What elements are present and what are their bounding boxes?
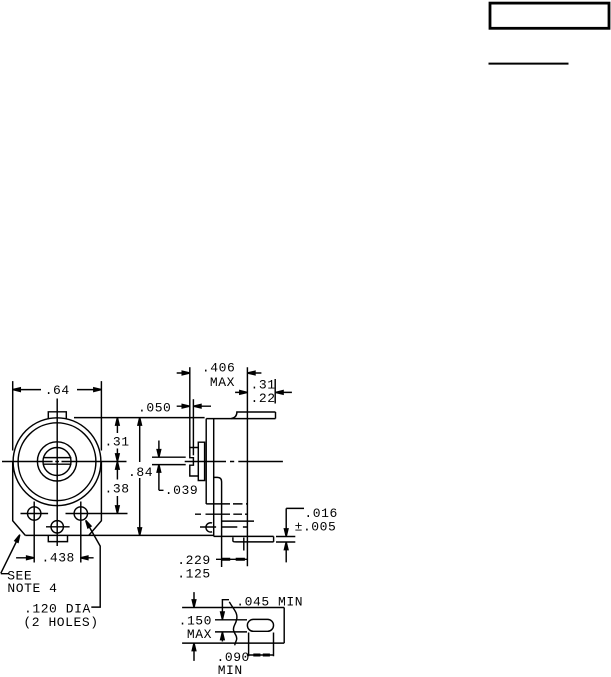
side view: body top edge [206, 418, 275, 420]
svg-text:NOTE 4: NOTE 4 [7, 581, 57, 596]
detail view: band bottom edge [182, 642, 284, 644]
front view: rotor circle [43, 448, 71, 476]
svg-text:.039: .039 [165, 483, 198, 498]
detail view: break (wavy) line [229, 602, 237, 646]
mounting hole left [28, 507, 41, 520]
svg-text:.045 MIN: .045 MIN [236, 594, 303, 609]
side view: inner vertical line [213, 419, 215, 537]
dim .38 (vertical) [116, 462, 118, 514]
front view: screw slot upper line [44, 457, 72, 459]
front view: bottom tab [48, 535, 67, 541]
front view: horizontal centerline [2, 461, 127, 463]
center boss circle [51, 521, 63, 533]
svg-text:MIN: MIN [218, 663, 243, 677]
svg-text:MAX: MAX [187, 627, 212, 642]
side view: top pin upper edge [231, 412, 275, 419]
front view: vertical centerline [56, 399, 58, 547]
dim .039 [159, 441, 164, 491]
svg-text:.125: .125 [177, 566, 210, 581]
detail view: slot edge extension lines [215, 620, 247, 632]
seating plane vertical line [246, 367, 248, 566]
svg-text:.406: .406 [202, 360, 235, 375]
dim .016 leader and text [286, 507, 304, 509]
svg-text:.64: .64 [45, 383, 70, 398]
side view: bottom pin upper surface [214, 535, 274, 537]
top extension line (body top) [74, 417, 205, 419]
svg-text:.38: .38 [105, 482, 130, 497]
leader .120 DIA [89, 526, 101, 608]
pin tip extension bar [274, 379, 276, 404]
side view: hidden hole line [195, 513, 248, 515]
center boss crosshair [46, 526, 70, 528]
svg-text:±.005: ±.005 [295, 519, 337, 534]
side view: extension line 2 [192, 399, 194, 455]
dim .31 (vertical) [116, 418, 118, 462]
detail view: band top edge [182, 607, 284, 609]
side view: wiper pin bend top [214, 477, 222, 567]
dim .090 MIN extension lines [249, 633, 274, 657]
dim .090 MIN line [247, 654, 274, 656]
detail view: pin slot (obround) [247, 619, 273, 631]
front view: housing bottom edge [25, 534, 213, 536]
front view: screw slot lower line [44, 463, 72, 465]
side view: extension line 1 (shaft face) [189, 367, 191, 447]
dim .016 arrows [285, 508, 287, 562]
extension line below flange [243, 538, 245, 551]
side view: body left edge [205, 419, 207, 504]
dim .64 extension lines [13, 381, 102, 450]
side view: horizontal centerline dashes [185, 461, 283, 463]
front view: top tab [48, 412, 66, 420]
side view: bottom pin lower surface [233, 537, 274, 542]
side view: screw tip profile [190, 448, 199, 477]
front view: housing right side with chamfer [89, 462, 102, 536]
dim .438 [16, 557, 94, 559]
mounting hole right [74, 507, 87, 520]
leader .045 MIN [222, 600, 229, 612]
front view: inner circle (recess) [37, 442, 76, 481]
svg-text:.84: .84 [128, 465, 153, 480]
dim .229/.125 [216, 558, 248, 560]
dim .64 line and arrows [13, 389, 102, 391]
side view: top pin tip [275, 412, 277, 419]
slot extension lines to .039 [152, 457, 186, 464]
svg-text:.22: .22 [251, 391, 276, 406]
side view: body bottom-left edge + hidden continuation [206, 503, 230, 505]
front view: outer circle [13, 418, 101, 506]
side view: inner shelf line [222, 520, 254, 522]
svg-text:.438: .438 [42, 550, 75, 565]
dim .84 (vertical) [139, 418, 141, 536]
svg-text:(2 HOLES): (2 HOLES) [23, 615, 98, 630]
side view: nub dash-dot centerline [200, 526, 247, 528]
leader SEE NOTE 4 [1, 540, 17, 574]
front view: housing left side with chamfer [13, 462, 26, 536]
svg-text:.31: .31 [105, 435, 130, 450]
dim .045 lower arrow [221, 632, 223, 641]
mounting hole right crosshair [66, 502, 128, 563]
side view: screw head column [198, 442, 204, 480]
dim .406 MAX [177, 372, 262, 374]
dim .31/.22 (pin length) [235, 391, 292, 393]
side view: bottom pin tip [273, 536, 275, 542]
detail view: band right edge [283, 608, 285, 644]
svg-text:.050: .050 [138, 400, 171, 415]
title block box (top right) [490, 3, 609, 28]
svg-text:MAX: MAX [210, 375, 235, 390]
dim .016 extension lines [276, 537, 295, 543]
mounting hole left crosshair [21, 502, 49, 563]
front view: second circle [18, 423, 96, 501]
dim .150 MAX arrows [193, 592, 195, 661]
side view: locating nub arc [206, 523, 212, 532]
title block underline [489, 63, 569, 65]
